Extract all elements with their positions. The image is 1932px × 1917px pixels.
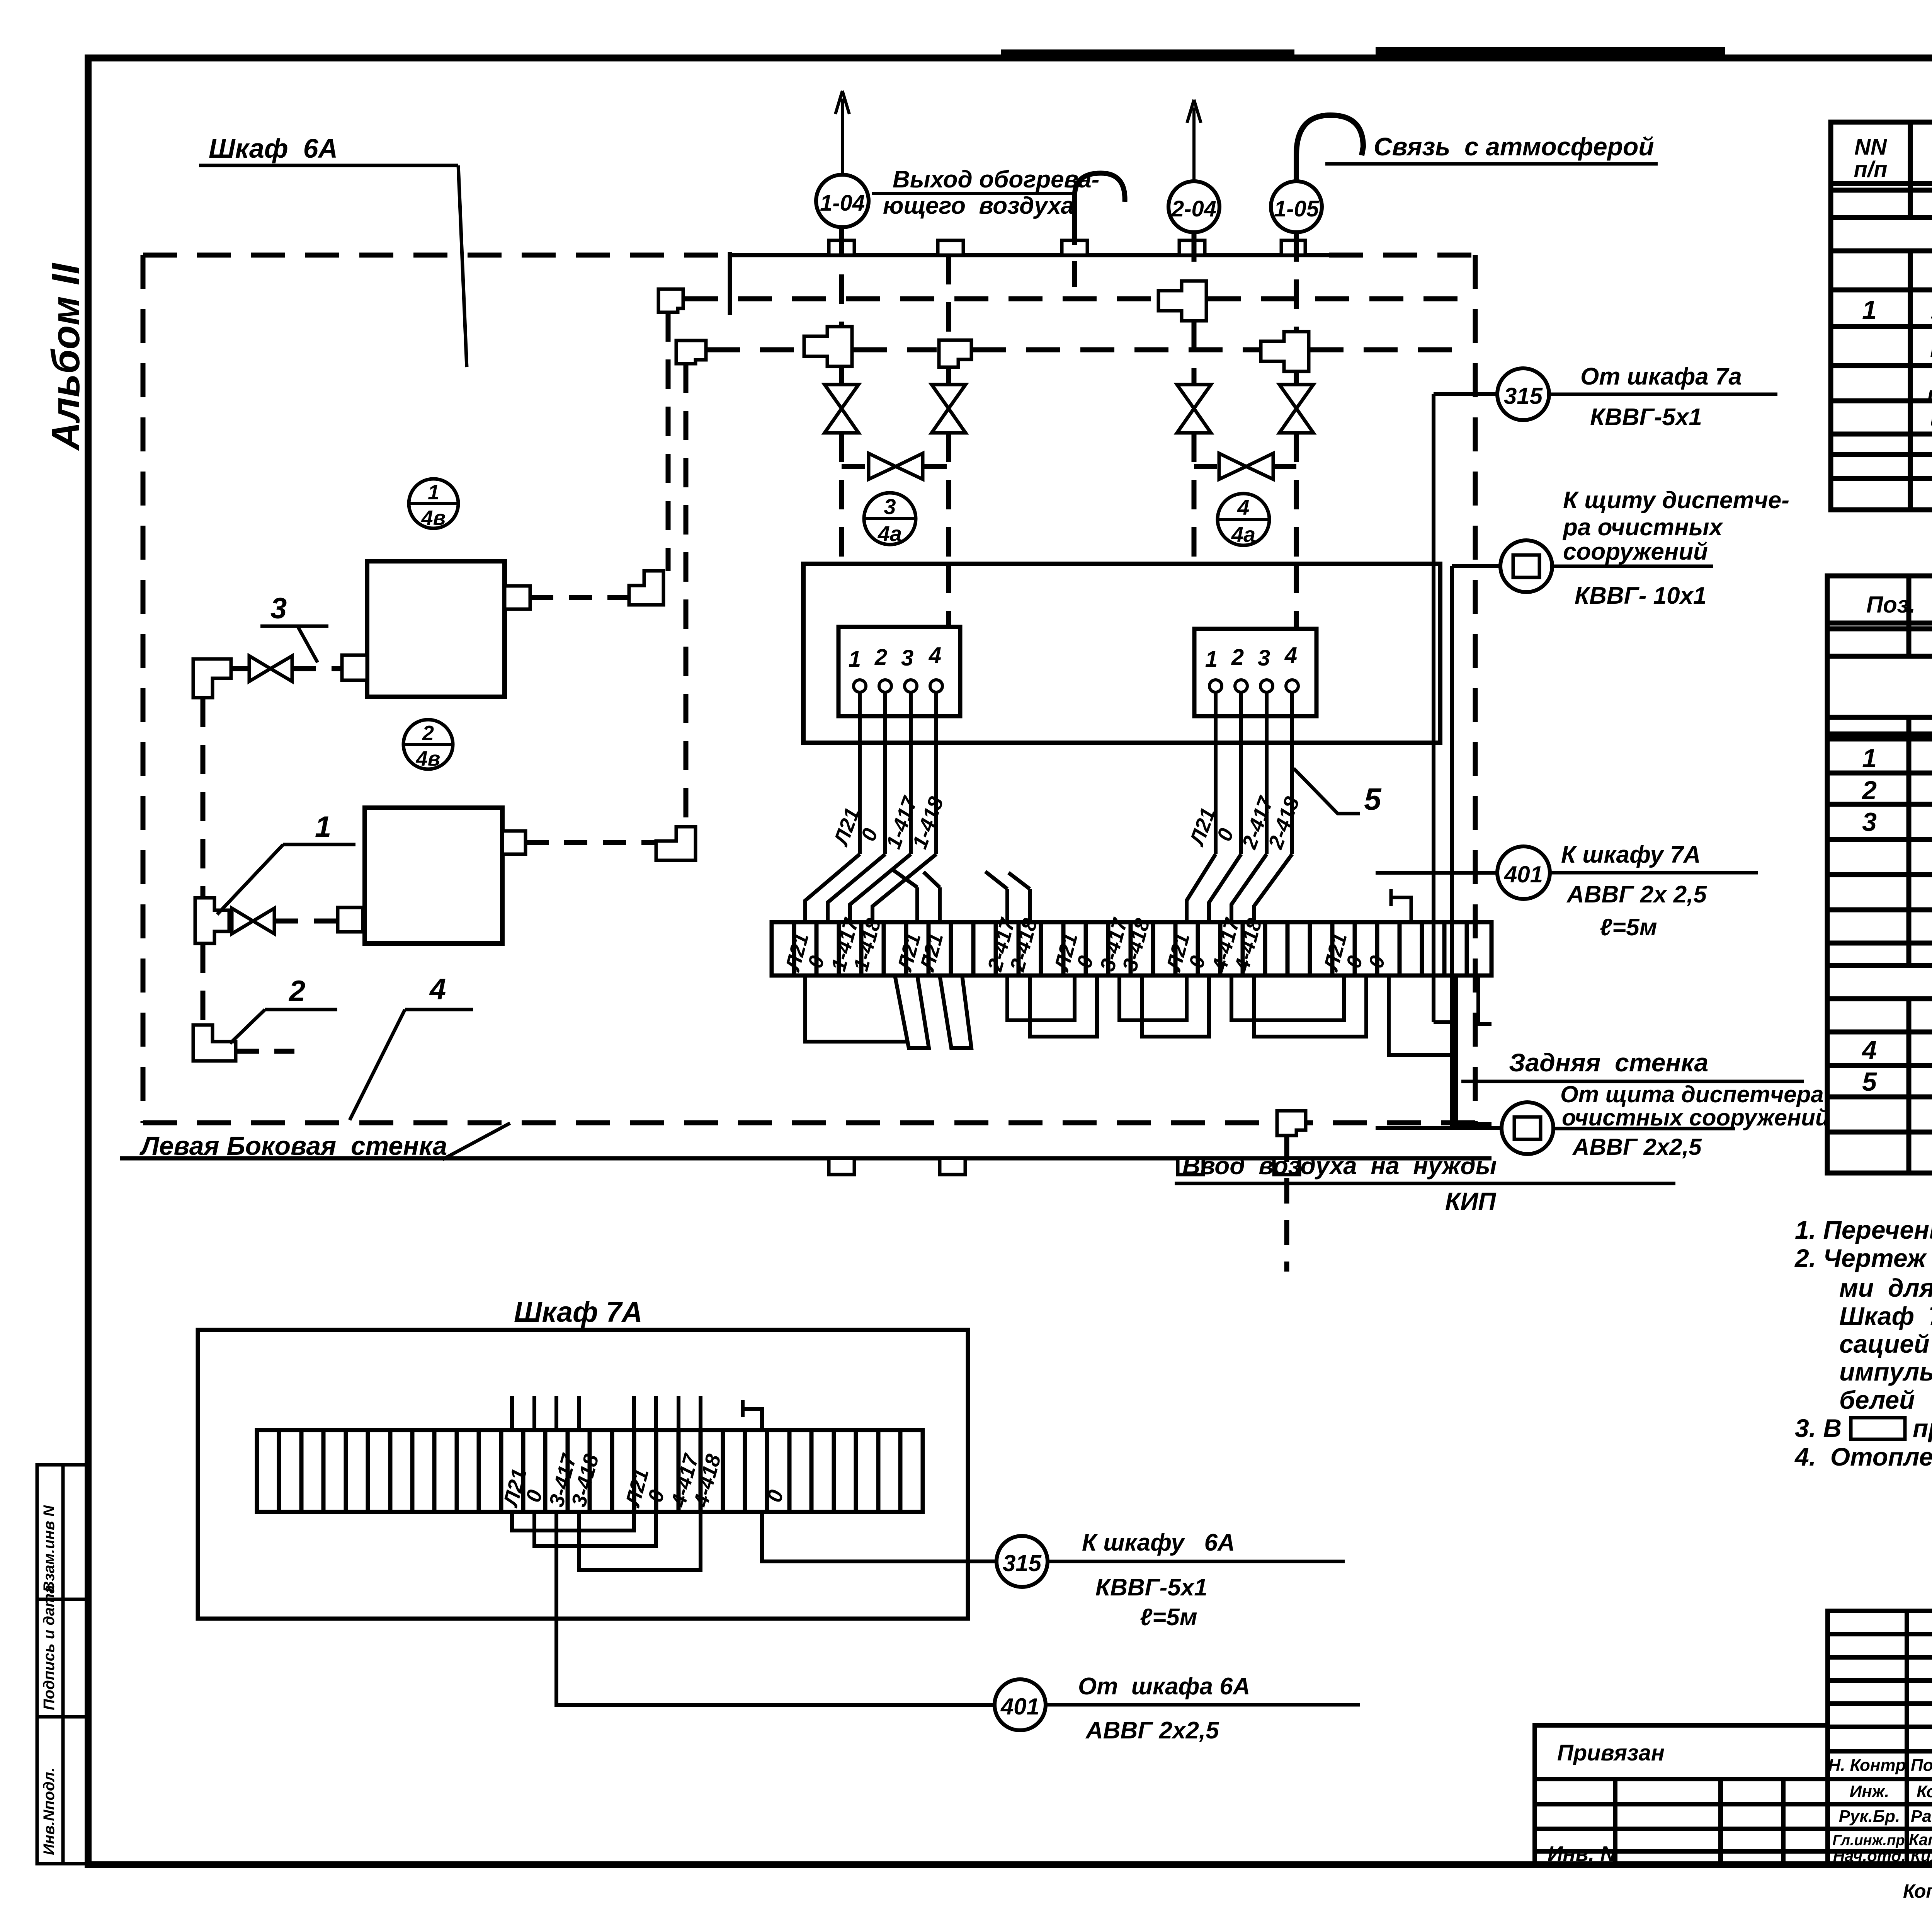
riser blind x2455 — [946, 255, 951, 627]
vent arrow above 2-04 — [1187, 100, 1201, 180]
impulse line manifold 1 — [684, 296, 1461, 301]
svg-text:4: 4 — [1237, 495, 1249, 519]
svg-text:1-04: 1-04 — [820, 191, 865, 216]
elbow fitting E7 on rear wall — [1277, 1111, 1306, 1136]
svg-text:2: 2 — [874, 645, 887, 670]
block1 pin numbers — [849, 643, 941, 672]
left "privyazan" block — [1535, 1725, 1828, 1865]
elbow fitting E6 — [193, 1025, 236, 1061]
box A left shutoff valve — [249, 656, 292, 681]
svg-text:ми для камеры распределени: ми для камеры распределения ила — [1839, 1273, 1932, 1302]
elbow fitting E3 — [629, 571, 663, 605]
svg-text:5: 5 — [1862, 1067, 1877, 1096]
instrument circle 1-04 — [816, 175, 869, 227]
svg-text:Поздняково: Поздняково — [1911, 1756, 1932, 1775]
elbow fitting E5 — [193, 659, 231, 698]
callout 3 — [260, 592, 328, 662]
elbow fitting E2 — [676, 340, 706, 364]
svg-text:401: 401 — [1000, 1694, 1039, 1720]
svg-text:АВВГ 2х2,5: АВВГ 2х2,5 — [1085, 1717, 1219, 1744]
svg-text:3. В: 3. В — [1795, 1414, 1842, 1442]
bottom texts outside frame — [1903, 1872, 1932, 1913]
block2 wire tags — [1185, 793, 1304, 852]
svg-text:5: 5 — [1364, 782, 1382, 816]
tee fitting T2 — [804, 327, 852, 366]
callout 1 — [217, 810, 355, 914]
riser heater x2781 — [1072, 220, 1077, 298]
svg-text:Альбом II: Альбом II — [44, 262, 88, 451]
position circle 1/4v — [407, 479, 460, 529]
under-strip loops 7A — [512, 1512, 996, 1705]
callout 2 — [230, 975, 337, 1044]
under-strip jumper loops — [805, 976, 1492, 1124]
svg-text:Ввод воздуха на нужды: Ввод воздуха на нужды — [1182, 1152, 1497, 1180]
vertical column lines (skip band 563-649) — [1910, 122, 1932, 510]
terminal strip 7A — [257, 1430, 923, 1512]
block2 wires down — [1216, 692, 1292, 854]
svg-text:п/п: п/п — [1854, 157, 1888, 182]
cable circle 315 (7A) — [997, 1529, 1345, 1631]
gooseneck above 1-05 — [1296, 115, 1363, 180]
svg-text:Л21: Л21 — [1162, 931, 1194, 974]
svg-text:4а: 4а — [878, 521, 902, 546]
position circle 2/4v — [402, 720, 454, 770]
svg-text:Нач.отд.: Нач.отд. — [1833, 1847, 1906, 1865]
svg-text:4. Отопление шкафов КИП: 4. Отопление шкафов КИП — [1794, 1442, 1932, 1471]
tee fitting T1 — [1158, 281, 1206, 321]
svg-text:белей: белей — [1839, 1386, 1915, 1414]
horizontal row lines — [1831, 181, 1932, 186]
svg-text:NN: NN — [1854, 134, 1887, 160]
svg-text:Л21: Л21 — [781, 931, 813, 974]
box B left shutoff valve — [232, 908, 274, 934]
instrument circle 2-04 — [1168, 181, 1219, 232]
callout 5 leader — [1294, 768, 1382, 816]
svg-text:Козлов: Козлов — [1917, 1782, 1932, 1801]
big junction box — [803, 564, 1440, 743]
svg-text:2: 2 — [422, 722, 434, 745]
svg-text:3: 3 — [1258, 645, 1270, 671]
instrument circle 1-05 — [1271, 181, 1322, 232]
svg-text:манометра мембранного: манометра мембранного — [1930, 334, 1932, 362]
riser 1-04 — [839, 227, 844, 564]
label levaya bokovaya stenka — [139, 1123, 510, 1161]
svg-text:Копир. Л. Зрукина: Копир. Л. Зрукина — [1903, 1880, 1932, 1902]
left risers to boxes — [203, 312, 686, 1025]
callout 4 — [350, 973, 473, 1120]
terminal block 2 — [1194, 629, 1316, 716]
equalizer valves horizontal — [869, 453, 1273, 479]
svg-text:Радюшкин: Радюшкин — [1911, 1807, 1932, 1826]
svg-text:Гл.инж.пр: Гл.инж.пр — [1832, 1832, 1905, 1849]
column verticals, broken at band rows — [1909, 576, 1932, 1173]
label Шкаф 6А with leader — [199, 133, 467, 367]
hook tag above strip — [1391, 889, 1411, 922]
svg-text:КВВГ-5х1: КВВГ-5х1 — [1095, 1574, 1207, 1601]
vent arrow above 1-04 — [835, 91, 849, 174]
rear bottom wall solid — [120, 1156, 1492, 1161]
attribute strip left outer — [37, 1465, 88, 1864]
cable bus verticals — [1434, 394, 1456, 1128]
svg-text:2. Чертеж выполнен для шкаф: 2. Чертеж выполнен для шкафа 6А с двумя … — [1794, 1244, 1932, 1272]
svg-text:Инв. N: Инв. N — [1548, 1842, 1616, 1866]
svg-text:Инв.Nподл.: Инв.Nподл. — [41, 1767, 58, 1855]
svg-text:ℓ=5м: ℓ=5м — [1600, 914, 1657, 941]
svg-text:401: 401 — [1504, 861, 1543, 887]
box B right port — [502, 831, 526, 854]
svg-text:Л21: Л21 — [1050, 931, 1082, 974]
svg-text:3: 3 — [884, 494, 896, 519]
svg-text:Рук.Бр.: Рук.Бр. — [1839, 1807, 1900, 1826]
block1 wires down — [860, 692, 936, 854]
svg-text:Левая Боковая стенка: Левая Боковая стенка — [139, 1131, 447, 1161]
cable circle 315 top — [1434, 363, 1777, 431]
table 2: lower right parts/materials list — [1827, 576, 1932, 1173]
svg-text:1. Перечень изделии и матер: 1. Перечень изделии и материалов приведе… — [1795, 1216, 1932, 1244]
svg-text:1-05: 1-05 — [1274, 196, 1319, 221]
block1 pins — [854, 680, 942, 692]
svg-text:АВВГ 2х2,5: АВВГ 2х2,5 — [1572, 1134, 1702, 1160]
svg-text:4в: 4в — [421, 506, 446, 529]
wire stubs above strip 7A — [512, 1396, 762, 1430]
svg-text:АВВГ 2х 2,5: АВВГ 2х 2,5 — [1566, 881, 1707, 908]
svg-text:ℓ=5м: ℓ=5м — [1140, 1604, 1197, 1631]
elbow fitting E4 — [656, 827, 696, 860]
cable circle 401 — [1376, 841, 1758, 941]
svg-text:2: 2 — [1861, 776, 1877, 805]
svg-text:4: 4 — [1284, 643, 1297, 668]
cabinet top wall solid segment with stub — [730, 252, 1329, 315]
svg-text:Шкаф 6А: Шкаф 6А — [209, 133, 338, 163]
svg-text:Связь с атмосферой: Связь с атмосферой — [1374, 132, 1654, 161]
svg-text:4а: 4а — [1231, 522, 1255, 546]
svg-text:От шкафа 6А: От шкафа 6А — [1078, 1673, 1250, 1700]
svg-text:315: 315 — [1504, 383, 1543, 409]
label svyaz s atmosferoy — [1325, 132, 1658, 164]
box A right port — [505, 586, 530, 609]
position circle 3/4a — [862, 493, 917, 546]
svg-text:ра очистных: ра очистных — [1562, 514, 1723, 541]
block2 pin numbers — [1205, 643, 1297, 672]
personnel column block — [1828, 1611, 1932, 1865]
dP transmitter box B — [365, 808, 502, 943]
svg-text:Капитульский: Капитульский — [1909, 1830, 1932, 1849]
svg-text:4в: 4в — [416, 747, 440, 770]
gooseneck at heater outlet — [1075, 173, 1125, 220]
svg-text:1: 1 — [849, 647, 861, 672]
svg-text:2: 2 — [1231, 645, 1244, 670]
svg-text:Поз.: Поз. — [1866, 592, 1915, 618]
svg-text:Кильчетов: Кильчетов — [1911, 1847, 1932, 1865]
label vykhod obogrev vozdukha — [872, 166, 1099, 219]
box A left port — [342, 655, 367, 680]
box B left port — [338, 907, 363, 932]
dashed connections left boxes — [229, 598, 656, 1051]
sheet border frame — [1376, 47, 1725, 56]
elbow fitting T4 — [939, 340, 971, 367]
air inlet stub — [1175, 1136, 1675, 1272]
svg-text:КИП: КИП — [1445, 1187, 1497, 1215]
note-3 cable box symbol — [1851, 1418, 1905, 1439]
block2 pins — [1209, 680, 1298, 692]
rotated attribute labels — [41, 1505, 58, 1855]
svg-text:Н. Контр.: Н. Контр. — [1828, 1756, 1910, 1775]
svg-text:1: 1 — [1862, 295, 1877, 325]
svg-text:Взам.инв N: Взам.инв N — [41, 1505, 58, 1592]
svg-text:КВВГ- 10х1: КВВГ- 10х1 — [1575, 582, 1707, 609]
wires block2 to strip — [985, 854, 1292, 922]
svg-text:Л21: Л21 — [1319, 931, 1352, 974]
title block grid — [1535, 1611, 1932, 1865]
svg-text:От щита диспетчера: От щита диспетчера — [1560, 1081, 1824, 1107]
equalizer dashed links — [842, 464, 1296, 469]
svg-text:Установка и обвязка диф-: Установка и обвязка диф- — [1930, 296, 1932, 324]
svg-text:Задняя стенка: Задняя стенка — [1509, 1048, 1708, 1077]
svg-text:К шкафу 6А: К шкафу 6А — [1082, 1529, 1235, 1556]
wall pass-through bumps (bottom) — [829, 1158, 1299, 1175]
cable symbol to dispatcher board — [1452, 487, 1789, 609]
svg-text:2-04: 2-04 — [1171, 196, 1216, 221]
tee fitting T5 — [195, 898, 229, 943]
svg-text:1: 1 — [1862, 744, 1877, 773]
table 1: upper right parts list — [1831, 122, 1932, 510]
impulse line manifold 2 — [706, 347, 1461, 352]
rear wall label — [1461, 1048, 1804, 1081]
cable symbol from dispatcher board — [1376, 1081, 1830, 1160]
svg-text:Привязан: Привязан — [1557, 1740, 1665, 1765]
svg-text:К шкафу 7А: К шкафу 7А — [1561, 841, 1701, 868]
svg-text:проставляется номер кабеля: проставляется номер кабеля при привязке … — [1913, 1414, 1932, 1442]
wall pass-through bumps (top) — [829, 240, 1305, 255]
svg-text:3: 3 — [270, 592, 287, 625]
strip 7A slot tags — [499, 1451, 788, 1510]
tee fitting T3 — [1261, 332, 1309, 371]
position circle 4/4a — [1216, 494, 1271, 546]
strip slot tags — [781, 915, 1390, 974]
dP transmitter box A — [367, 561, 505, 697]
terminal block 1 — [838, 627, 960, 716]
svg-text:Шкаф 7А аналогичен и отли: Шкаф 7А аналогичен и отличается цифровой… — [1839, 1302, 1932, 1330]
cable circle 401 (7A) — [995, 1673, 1360, 1744]
riser 2-04 — [1192, 232, 1197, 564]
svg-text:Подпись и дата: Подпись и дата — [41, 1585, 58, 1710]
cabinet 7A box — [198, 1330, 968, 1619]
svg-text:КВВГ-5х1: КВВГ-5х1 — [1590, 404, 1702, 431]
svg-text:3: 3 — [1862, 807, 1877, 837]
svg-text:импульсных труб , количество: импульсных труб , количеством и номерами… — [1839, 1357, 1932, 1386]
svg-text:Выход обогрева-: Выход обогрева- — [893, 166, 1099, 193]
svg-text:сооружений: сооружений — [1563, 538, 1708, 565]
terminal strip — [772, 922, 1492, 976]
svg-text:очистных сооружений: очистных сооружений — [1562, 1105, 1830, 1130]
elbow fitting E1 — [658, 289, 683, 312]
svg-text:1: 1 — [428, 481, 439, 504]
svg-text:ДМЭУ-МИ в утепленном: ДМЭУ-МИ в утепленном — [1928, 370, 1932, 399]
svg-text:Инж.: Инж. — [1850, 1782, 1889, 1801]
svg-text:3: 3 — [901, 645, 913, 671]
block1 wire tags — [829, 793, 948, 852]
wires block1 to strip — [805, 854, 940, 922]
shutoff valves vertical v1-v4 — [825, 385, 1313, 433]
notes text block — [1794, 1216, 1932, 1471]
svg-text:4: 4 — [1861, 1035, 1877, 1065]
svg-text:315: 315 — [1003, 1550, 1042, 1576]
cabinet 6A dashed outline — [143, 255, 1475, 1123]
svg-text:Шкаф 7А: Шкаф 7А — [514, 1296, 643, 1328]
svg-text:шкафу.: шкафу. — [1930, 404, 1932, 432]
svg-text:ющего воздуха: ющего воздуха — [883, 192, 1074, 219]
svg-text:4: 4 — [429, 973, 446, 1006]
svg-text:4: 4 — [929, 643, 941, 668]
title block texts — [1548, 1624, 1932, 1868]
svg-text:1: 1 — [315, 810, 331, 843]
svg-text:От шкафа 7а: От шкафа 7а — [1580, 363, 1742, 390]
svg-text:1: 1 — [1205, 647, 1218, 672]
svg-text:2: 2 — [288, 975, 305, 1008]
svg-text:К щиту диспетче-: К щиту диспетче- — [1563, 487, 1789, 514]
riser 1-05 — [1294, 232, 1299, 629]
svg-text:сацией в начале номера шк: сацией в начале номера шкафа , маркировк… — [1839, 1330, 1932, 1358]
